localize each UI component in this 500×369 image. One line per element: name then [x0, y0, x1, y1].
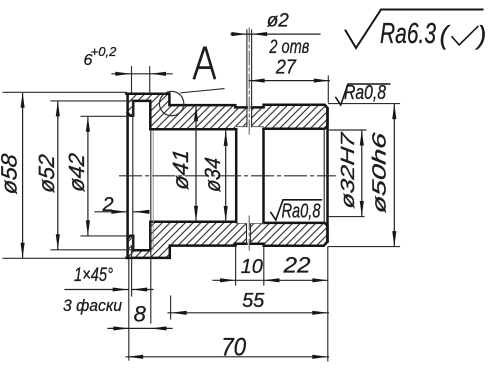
dimension line 10 and 22 [213, 279, 328, 281]
lower bore line, internal groove walls, bore 42 lower chamfer [128, 222, 237, 250]
bushing outline (thick visible edges) [126, 94, 327, 258]
hole 2 axis lower [248, 216, 250, 250]
svg-text:10: 10 [241, 256, 263, 278]
right end face [326, 108, 329, 241]
roughness mark Ra0.8 on OD 50h6 [336, 84, 390, 105]
faint hatch boundary at internal recess [236, 127, 263, 224]
detail view letter A [194, 48, 214, 78]
svg-text:Ra6.3: Ra6.3 [380, 18, 436, 50]
roughness mark Ra0.8 on bore 32H7 [271, 200, 322, 220]
detail A leader line [181, 89, 224, 93]
svg-text:22: 22 [282, 253, 310, 278]
extension line chamfer 1x45 [131, 246, 133, 296]
svg-text:ø32H7: ø32H7 [338, 130, 359, 209]
extension line dim 55 [170, 296, 172, 319]
extension line groove left wall (dim 2) [132, 101, 134, 250]
svg-text:2 отв: 2 отв [269, 37, 310, 58]
extension lines dia52 [51, 101, 133, 250]
svg-text:ø41: ø41 [168, 148, 193, 191]
internal recess right wall edge [262, 129, 265, 223]
small check in parentheses [452, 27, 478, 46]
dimension line dia32H7 [361, 131, 363, 216]
svg-text:3 фаски: 3 фаски [63, 296, 122, 315]
svg-text:Ra0,8: Ra0,8 [282, 201, 321, 223]
upper outline: flange OD 58, step to OD 50h6, relief groove 10 wide, chamfered right corner [126, 94, 327, 129]
dimension line 8 [108, 327, 172, 329]
dimension line 6+0.2 [112, 73, 172, 75]
dimension line dia42 [87, 118, 89, 236]
extension lines dia32H7 [329, 130, 367, 217]
svg-text:): ) [475, 20, 487, 50]
svg-text:ø50h6: ø50h6 [369, 131, 390, 214]
bore chamfer silhouette at right face [323, 129, 325, 223]
dimension line dia50h6 [393, 104, 395, 246]
svg-text:Ra0,8: Ra0,8 [344, 82, 386, 104]
dimension line 27 [249, 80, 329, 82]
arrowheads of all dimensions [21, 32, 397, 359]
hole 2 edges through lower wall [247, 224, 251, 244]
svg-text:+0,2: +0,2 [91, 44, 117, 59]
extension lines dia58 [3, 92, 127, 258]
dimension line dia2 holes [231, 33, 320, 35]
svg-text:ø52: ø52 [34, 153, 59, 194]
dimension line dia41 [195, 106, 197, 221]
lower outline: flange bottom, OD 50h6 bottom, relief groove, chamfered corner [126, 223, 327, 258]
hole 2 edges through upper wall [247, 30, 252, 127]
hole 2 axis upper [248, 28, 250, 136]
extension line right face for 22 55 70 [327, 247, 329, 361]
svg-text:2: 2 [101, 194, 113, 216]
svg-text:27: 27 [275, 57, 297, 79]
svg-text:1×45°: 1×45° [74, 265, 113, 286]
svg-text:ø34: ø34 [200, 156, 225, 193]
svg-text:8: 8 [134, 302, 147, 327]
general roughness symbol Ra6.3 [346, 10, 483, 49]
internal recess left wall edge [235, 129, 238, 222]
upper bore line 34, internal groove 52x6 walls, bore 42 with face chamfer [128, 101, 237, 129]
extension lines dim 8 and 70 [129, 131, 151, 361]
detail A circle around groove corner [159, 91, 183, 115]
section hatching of bushing walls [128, 94, 328, 258]
dimension line 55 [168, 312, 329, 314]
dimension line dia34 [225, 131, 227, 221]
extension lines dia50h6 [329, 104, 400, 247]
extension line dim 27 right [327, 76, 329, 102]
svg-text:ø2: ø2 [267, 11, 290, 32]
extension lines 6+0.2 groove width [132, 67, 150, 93]
extension lines dia42 [81, 116, 128, 236]
svg-text:ø58: ø58 [0, 152, 21, 196]
dimension line dia58 [22, 94, 24, 258]
part centerline (axis) [120, 175, 336, 177]
dimension line dia52 [57, 102, 59, 249]
dimension line chamfer 1x45 [65, 289, 128, 291]
svg-text:ø42: ø42 [64, 152, 89, 193]
dimension line 2 (groove offset) [95, 211, 126, 213]
svg-text:(: ( [440, 20, 451, 50]
extension lines relief groove (dim 10) [236, 247, 264, 286]
faint double of groove wall extension [152, 131, 154, 250]
left end face of flange [126, 94, 129, 258]
svg-text:55: 55 [242, 290, 265, 312]
dimension line 70 [126, 356, 329, 358]
svg-text:70: 70 [221, 334, 246, 362]
